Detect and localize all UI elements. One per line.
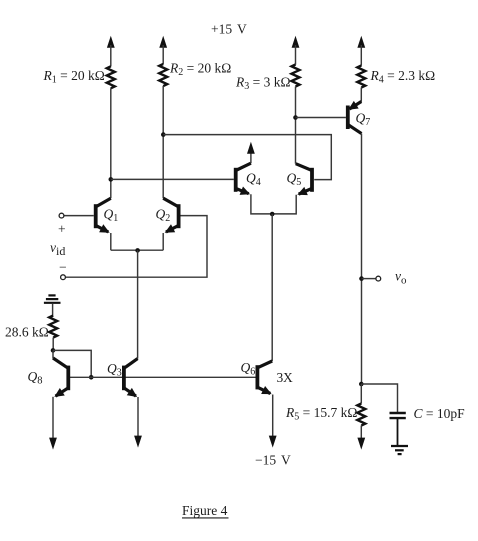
node dot Q8 collector / bias	[51, 348, 56, 353]
resistor R1	[107, 66, 115, 88]
ground symbol top left	[44, 295, 61, 302]
wire tail down to Q3 collector	[137, 250, 139, 358]
capacitor C bottom plate	[390, 417, 406, 419]
Q8 collector diagonal	[53, 358, 68, 368]
Q4 emitter lead	[251, 194, 296, 214]
svg-text:Figure 4: Figure 4	[182, 503, 228, 518]
svg-text:R4 = 2.3 kΩ: R4 = 2.3 kΩ	[370, 68, 436, 86]
v_o terminal circle	[376, 276, 381, 281]
Q7 collector output line	[361, 134, 363, 384]
Q4 supply up arrow	[247, 142, 255, 154]
Q2 emitter lead	[162, 233, 164, 250]
svg-text:Q8: Q8	[28, 369, 43, 387]
svg-text:R3 = 3 kΩ: R3 = 3 kΩ	[235, 75, 291, 93]
Q1 emitter diagonal with arrow	[96, 225, 109, 232]
svg-text:−: −	[59, 260, 67, 275]
wire down to Q6 collector	[271, 214, 273, 361]
capacitor bottom lead	[397, 418, 399, 446]
transistor Q4 bar	[234, 168, 238, 192]
Q3 down arrow	[134, 436, 142, 448]
Q7 collector diagonal	[348, 125, 362, 134]
svg-text:vid: vid	[50, 240, 65, 258]
wire R2 bottom to Q2 collector	[162, 86, 164, 198]
Q6 emitter lead	[272, 395, 274, 438]
R5 down arrow	[357, 438, 365, 450]
capacitor C top plate	[390, 412, 406, 414]
svg-text:C = 10pF: C = 10pF	[414, 406, 466, 421]
wire Q4 base to R1 line	[111, 178, 234, 180]
svg-text:+15 V: +15 V	[211, 22, 247, 37]
transistor Q1 bar	[94, 204, 98, 228]
transistor Q3 bar	[122, 366, 126, 391]
Q3 collector diagonal	[124, 359, 138, 369]
Q6 collector diagonal	[257, 361, 272, 368]
resistor 28.6 kOhm	[49, 316, 57, 338]
Q2 emitter diagonal with arrow	[166, 225, 179, 232]
Q1 emitter lead	[110, 233, 112, 250]
Q3 emitter diagonal with arrow	[124, 388, 136, 396]
+15V supply arrow (R1 branch)	[107, 36, 115, 67]
node dot R3 line / Q7 base tee	[293, 115, 298, 120]
resistor R3	[292, 65, 300, 87]
wire node to capacitor branch	[361, 384, 397, 412]
wire Q7 base to R3 line	[296, 117, 346, 119]
svg-text:Q5: Q5	[287, 171, 302, 189]
Q6 down arrow	[269, 436, 277, 448]
svg-text:Q7: Q7	[356, 111, 371, 129]
ground symbol bottom right	[391, 446, 408, 454]
wire ground to 28.6k resistor	[52, 304, 54, 316]
input + terminal	[59, 213, 64, 218]
Q5 collector diagonal	[296, 164, 312, 171]
node dot R2 line / Q5 base loop tee	[161, 132, 166, 137]
input - terminal	[61, 275, 66, 280]
+15V supply arrow (R4 branch)	[357, 36, 365, 66]
wire bias node to base rail	[53, 350, 91, 377]
svg-text:Q2: Q2	[156, 207, 171, 225]
Q8 down arrow	[49, 438, 57, 450]
Q2 collector diagonal	[163, 198, 178, 207]
svg-text:Q1: Q1	[104, 207, 119, 225]
svg-text:R5 = 15.7 kΩ: R5 = 15.7 kΩ	[285, 405, 357, 423]
+15V supply arrow (R2 branch)	[159, 36, 167, 64]
Q8 emitter diagonal with arrow	[56, 388, 69, 396]
svg-text:R1 = 20 kΩ: R1 = 20 kΩ	[43, 68, 105, 86]
transistor Q2 bar	[177, 204, 181, 228]
R5 bottom lead	[360, 426, 362, 440]
transistor Q5 bar	[310, 168, 314, 192]
resistor R5	[357, 404, 365, 426]
Q8 emitter lead	[52, 397, 54, 439]
resistor R2	[159, 64, 167, 86]
svg-text:+: +	[58, 222, 66, 237]
node dot base rail tee	[89, 375, 94, 380]
wire base rail Q8 to Q6	[68, 376, 257, 378]
node dot v_o tap	[359, 276, 364, 281]
svg-text:Q4: Q4	[246, 171, 261, 189]
wire node to R5	[360, 384, 362, 404]
resistor R4	[357, 66, 365, 88]
wire R1 bottom to Q1 collector	[110, 88, 112, 198]
Q1 base wire	[64, 215, 94, 217]
svg-text:R2 = 20 kΩ: R2 = 20 kΩ	[169, 61, 231, 79]
node dot R1 line / Q4 base tee	[109, 177, 114, 182]
Q5 emitter diagonal with arrow	[299, 188, 312, 194]
transistor Q6 bar	[255, 365, 259, 389]
transistor Q7 (PNP) bar	[346, 106, 350, 130]
Q7 emitter with arrow into bar	[350, 102, 362, 110]
v_o stub wire	[362, 278, 376, 280]
svg-text:vo: vo	[395, 269, 407, 287]
Q4 emitter diagonal with arrow	[236, 188, 249, 193]
Q3 emitter lead	[137, 397, 139, 437]
svg-text:Q3: Q3	[107, 361, 122, 379]
caption underline	[182, 517, 229, 519]
Q1 collector diagonal	[96, 198, 111, 207]
+15V supply arrow (R3 branch)	[292, 36, 300, 65]
svg-text:3X: 3X	[277, 370, 293, 385]
Q8 collector lead	[52, 350, 54, 358]
Q2 base wire loop to - terminal	[66, 216, 208, 278]
svg-text:28.6 kΩ: 28.6 kΩ	[5, 325, 49, 340]
wire common emitters Q1 Q2	[111, 249, 163, 251]
node dot diff pair tail	[135, 248, 140, 253]
node dot Q4 Q5 common emitters	[270, 212, 275, 217]
transistor Q8 bar	[66, 366, 70, 391]
node dot output to R5/C	[359, 382, 364, 387]
Q4 collector supply lead	[250, 152, 252, 163]
svg-text:−15 V: −15 V	[255, 453, 291, 468]
wire resistor to Q8 collector node	[52, 338, 54, 351]
Q4 collector diagonal	[236, 163, 251, 170]
wire R3 bottom to Q5 collector	[295, 87, 297, 164]
wire Q5 base loop	[163, 135, 331, 180]
svg-text:Q6: Q6	[241, 360, 256, 378]
wire R4 bottom to Q7 emitter	[360, 88, 362, 102]
Q6 emitter diagonal with arrow	[257, 387, 270, 393]
